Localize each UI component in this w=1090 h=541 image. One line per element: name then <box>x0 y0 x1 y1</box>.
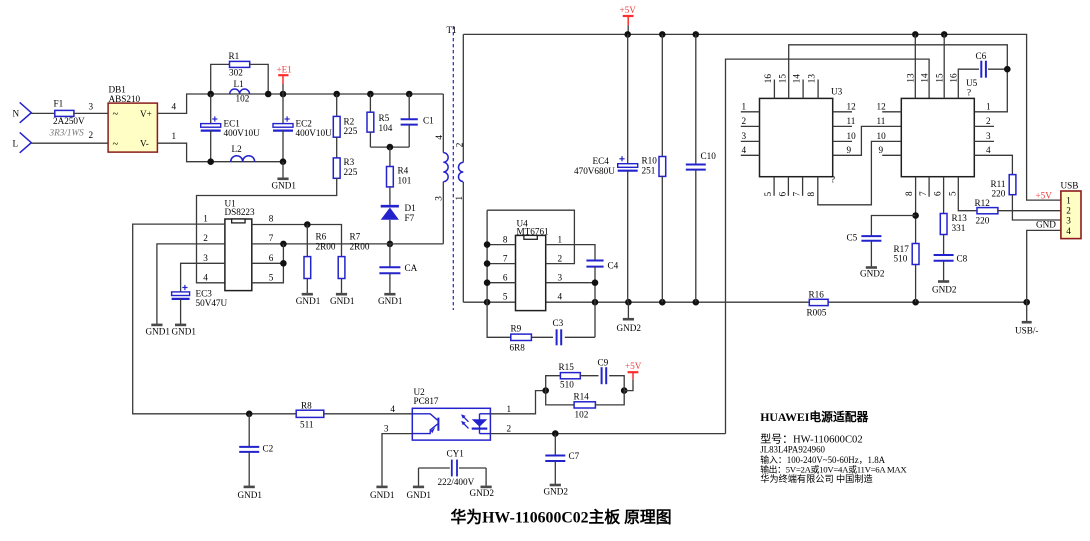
resistor R11 <box>1009 175 1016 195</box>
wire U3 pin 6 stub <box>787 177 789 196</box>
svg-text:104: 104 <box>379 123 393 133</box>
wire U2 pin 3 to ground <box>382 434 412 487</box>
wire U3 pin 8 to U5 pin 10 <box>818 141 902 204</box>
junction return rail GND2 <box>625 299 632 306</box>
svg-text:7: 7 <box>269 233 274 243</box>
svg-text:3: 3 <box>203 253 208 263</box>
junction return rail R10 <box>659 299 666 306</box>
svg-text:~: ~ <box>113 109 119 120</box>
svg-text:C8: C8 <box>957 254 968 264</box>
svg-text:1: 1 <box>986 102 991 112</box>
svg-text:USB: USB <box>1061 181 1079 191</box>
svg-text:4: 4 <box>390 404 395 414</box>
svg-text:251: 251 <box>642 166 656 176</box>
svg-text:~: ~ <box>113 139 119 150</box>
ground GND1 below CA <box>384 293 395 296</box>
svg-text:EC2: EC2 <box>296 119 313 129</box>
svg-text:输出：5V=2A或10V=4A或11V=6A MAX: 输出：5V=2A或10V=4A或11V=6A MAX <box>760 464 907 475</box>
svg-text:9: 9 <box>879 145 884 155</box>
wire R3 to U1 pin 4 <box>197 178 337 282</box>
svg-text:L: L <box>13 139 19 149</box>
svg-text:V+: V+ <box>140 109 152 119</box>
junction C7 tap <box>552 430 559 437</box>
diode D1 <box>381 205 399 208</box>
svg-text:12: 12 <box>877 102 887 112</box>
svg-text:ABS210: ABS210 <box>109 94 141 104</box>
svg-text:R15: R15 <box>559 362 575 372</box>
junction R6 top <box>304 221 311 228</box>
svg-text:1: 1 <box>558 234 563 244</box>
ground GND2 below C7 <box>550 484 561 487</box>
resistor R1 <box>211 64 230 94</box>
svg-text:R2: R2 <box>344 116 355 126</box>
svg-text:2: 2 <box>558 253 563 263</box>
resistor R9 <box>511 334 532 340</box>
svg-text:2: 2 <box>986 116 991 126</box>
svg-text:R10: R10 <box>642 156 658 166</box>
wire U2 pin 1 to divider <box>490 391 545 414</box>
svg-text:8: 8 <box>806 192 816 197</box>
wire USB pin 4 GND <box>1027 230 1061 302</box>
ground GND2 below C8 <box>938 280 949 283</box>
junction U1 pins 5-6-7 tie <box>280 241 287 248</box>
svg-text:2: 2 <box>454 142 464 147</box>
ground GND1 below CY1 <box>413 486 424 489</box>
svg-text:2R00: 2R00 <box>350 241 370 251</box>
svg-text:14: 14 <box>792 74 802 84</box>
IC U4 MT6761 <box>516 235 546 310</box>
svg-text:GND1: GND1 <box>378 296 403 306</box>
wire U5 pin 16 to C6 <box>958 69 979 98</box>
wire F1 to DB1 pin 3 <box>74 112 108 114</box>
capacitor C3 <box>556 329 558 345</box>
junction pin 6 tie <box>280 260 287 267</box>
wire U4 pin 3 <box>546 282 595 284</box>
svg-text:1: 1 <box>454 196 464 201</box>
svg-text:R13: R13 <box>952 213 968 223</box>
svg-text:华为终端有限公司 中国制造: 华为终端有限公司 中国制造 <box>760 473 873 484</box>
svg-text:GND1: GND1 <box>407 490 432 500</box>
svg-text:50V47U: 50V47U <box>196 298 228 308</box>
wire U1 pin 1 feedback to R8 <box>133 224 297 414</box>
wire U3 pin 13 stub <box>817 80 819 99</box>
capacitor C10 <box>695 34 697 164</box>
U2 LED arrows <box>462 415 468 421</box>
svg-text:511: 511 <box>300 420 314 430</box>
junction top rail EC4 <box>624 31 631 38</box>
junction return rail U4 pin 5 <box>484 299 491 306</box>
wire U5 pin 4 to R11 <box>974 155 1012 174</box>
svg-text:GND2: GND2 <box>544 487 569 497</box>
svg-text:2: 2 <box>89 130 94 140</box>
svg-text:R6: R6 <box>316 232 327 242</box>
svg-text:1: 1 <box>1066 195 1071 205</box>
transformer T1 primary winding <box>442 94 444 153</box>
capacitor C4 <box>586 260 603 262</box>
svg-text:102: 102 <box>236 93 250 103</box>
terminal USB- <box>1026 302 1028 322</box>
shunt resistor R16 <box>809 299 828 305</box>
svg-text:C7: C7 <box>569 451 580 461</box>
resistor R3 <box>336 137 338 158</box>
svg-text:DS8223: DS8223 <box>225 207 256 217</box>
junction U4 pin 8 <box>484 241 491 248</box>
ground GND1 below C2 <box>244 486 255 489</box>
svg-text:7: 7 <box>503 253 508 263</box>
junction L2 row EC1 <box>207 158 214 165</box>
svg-text:7: 7 <box>918 191 928 196</box>
svg-text:R11: R11 <box>991 179 1006 189</box>
svg-text:220: 220 <box>992 189 1006 199</box>
wire DB1 V- to lower rail <box>157 143 283 162</box>
svg-text:2: 2 <box>507 424 512 434</box>
resistor R6 <box>306 225 308 257</box>
capacitor C9 <box>601 367 603 384</box>
wire R12 to USB pin 2 <box>998 210 1061 212</box>
svg-text:+E1: +E1 <box>277 64 293 74</box>
optocoupler U2 PC817 <box>412 408 490 440</box>
svg-text:+5V: +5V <box>1036 191 1053 201</box>
svg-text:F7: F7 <box>405 213 415 223</box>
svg-text:V-: V- <box>140 139 149 149</box>
svg-text:102: 102 <box>575 410 589 420</box>
junction top rail U5 pin 15 <box>941 31 948 38</box>
svg-text:PC817: PC817 <box>414 396 439 406</box>
svg-text:EC1: EC1 <box>224 119 241 129</box>
svg-text:10: 10 <box>877 131 887 141</box>
svg-text:5: 5 <box>763 192 773 197</box>
capacitor C6 <box>980 61 982 78</box>
wire U1 pin 2 to ground <box>157 244 225 325</box>
resistor R17 <box>912 244 919 265</box>
svg-text:2R00: 2R00 <box>316 241 336 251</box>
svg-text:T1: T1 <box>447 25 458 35</box>
svg-text:F1: F1 <box>54 98 64 108</box>
svg-text:GND1: GND1 <box>272 180 297 190</box>
wire L to DB1 pin 2 <box>31 142 108 144</box>
wire U5 pin 15 to +5V rail <box>943 34 945 98</box>
resistor R2 <box>336 94 338 116</box>
svg-text:510: 510 <box>894 254 908 264</box>
svg-text:R16: R16 <box>809 290 825 300</box>
junction C4 pin 3 <box>592 279 599 286</box>
svg-text:MT6761: MT6761 <box>517 226 550 236</box>
svg-text:6R8: 6R8 <box>510 342 526 352</box>
svg-text:R5: R5 <box>379 113 390 123</box>
svg-text:CA: CA <box>405 263 418 273</box>
wire U5 pin 8 column <box>915 177 917 303</box>
junction top rail R10 <box>659 31 666 38</box>
junction return rail R17 <box>912 299 919 306</box>
resistor R12 <box>977 208 998 214</box>
Y-capacitor CY1 <box>419 467 450 469</box>
junction rail R2 top <box>333 91 340 98</box>
svg-text:8: 8 <box>904 191 914 196</box>
svg-text:?: ? <box>831 174 835 184</box>
svg-text:13: 13 <box>905 73 915 83</box>
wire R11 to USB pin 3 <box>1012 195 1061 220</box>
svg-text:14: 14 <box>919 73 929 83</box>
wire N to fuse F1 <box>31 112 55 114</box>
capacitor EC2 <box>282 94 284 124</box>
svg-text:EC4: EC4 <box>593 156 610 166</box>
svg-text:225: 225 <box>344 126 358 136</box>
wire U5 pin 7 stub <box>928 177 930 197</box>
svg-text:GND2: GND2 <box>860 269 885 279</box>
ground GND2 on return rail <box>627 302 629 319</box>
svg-text:6: 6 <box>933 191 943 196</box>
capacitor C8 <box>934 254 954 256</box>
junction divider left <box>542 387 549 394</box>
svg-text:R7: R7 <box>350 232 361 242</box>
junction return rail C10 <box>693 299 700 306</box>
wire U3 pin 12 stub <box>833 111 852 113</box>
svg-text:EC3: EC3 <box>196 288 213 298</box>
ground GND1 below R6 <box>302 293 313 296</box>
svg-text:L2: L2 <box>232 144 243 154</box>
resistor R10 <box>661 34 663 156</box>
svg-text:4: 4 <box>1066 226 1071 236</box>
junction C6 right <box>1004 66 1011 73</box>
svg-text:11: 11 <box>847 116 856 126</box>
junction U4 pin 7 <box>484 260 491 267</box>
ground GND1 below EC3 <box>175 324 186 327</box>
svg-text:400V10U: 400V10U <box>296 128 333 138</box>
inductor L1 <box>230 89 250 94</box>
wire secondary return rail <box>463 301 809 303</box>
junction D1 / primary return row <box>387 241 394 248</box>
svg-text:5: 5 <box>503 292 508 302</box>
svg-text:7: 7 <box>792 192 802 197</box>
svg-text:4: 4 <box>203 273 208 283</box>
svg-text:GND: GND <box>1036 220 1056 230</box>
svg-text:GND2: GND2 <box>470 488 495 498</box>
svg-text:R14: R14 <box>574 392 590 402</box>
wire U3 pin 15 riser <box>789 45 1008 112</box>
svg-text:D1: D1 <box>405 203 417 213</box>
svg-text:R9: R9 <box>511 323 522 333</box>
svg-text:4: 4 <box>172 101 177 111</box>
svg-text:3R3/1WS: 3R3/1WS <box>49 127 85 137</box>
wire U2 pin 2 row <box>490 433 725 435</box>
resistor R8 <box>296 410 324 417</box>
svg-text:华为HW-110600C02主板 原理图: 华为HW-110600C02主板 原理图 <box>450 507 671 526</box>
wire U3 pin 14 stub <box>802 80 804 99</box>
capacitor CA <box>389 244 391 267</box>
svg-text:2: 2 <box>742 116 747 126</box>
ground GND1 below R7 <box>336 293 347 296</box>
wire U3 pin 3 stub <box>741 140 760 142</box>
svg-text:R3: R3 <box>344 157 355 167</box>
wire DB1 V+ to main DC rail <box>157 94 443 113</box>
wire R5 C1 join <box>370 146 409 148</box>
wire U5 pin 3 stub <box>974 140 994 142</box>
wire U5 pin 5 to R12 <box>958 177 977 211</box>
junction rail EC1 <box>207 91 214 98</box>
transformer T1 secondary winding <box>462 34 464 162</box>
svg-text:12: 12 <box>847 102 857 112</box>
junction rail R5 top <box>367 91 374 98</box>
svg-text:11: 11 <box>877 116 886 126</box>
svg-text:9: 9 <box>847 145 852 155</box>
svg-text:15: 15 <box>934 73 944 83</box>
junction C5 tap <box>912 212 919 219</box>
svg-text:222/400V: 222/400V <box>438 477 475 487</box>
wire U5 pin 6 column <box>943 177 945 214</box>
IC U5 <box>901 98 974 176</box>
IC U1 DS8223 <box>225 219 252 291</box>
svg-text:15: 15 <box>777 74 787 84</box>
junction R4 top <box>387 144 394 151</box>
wire U3 pin 2 stub <box>741 125 760 127</box>
wire U1 pin 8 row <box>252 225 342 257</box>
svg-text:3: 3 <box>89 101 94 111</box>
svg-text:C3: C3 <box>553 318 564 328</box>
wire U5 pin 2 stub <box>974 125 994 127</box>
junction L2 row EC2 <box>280 158 287 165</box>
wire U5 pin 12 stub <box>882 111 901 113</box>
svg-text:+5V: +5V <box>625 361 642 371</box>
junction U4 pin 6 <box>484 279 491 286</box>
svg-text:L1: L1 <box>234 79 245 89</box>
svg-text:4: 4 <box>986 145 991 155</box>
junction top rail C10 <box>693 31 700 38</box>
svg-text:302: 302 <box>229 67 243 77</box>
svg-text:1: 1 <box>203 213 208 223</box>
wire U4 pin 1 to C4 <box>546 245 595 261</box>
svg-text:101: 101 <box>398 175 412 185</box>
capacitor C1 <box>408 94 410 119</box>
wire feedback riser to U3 area <box>726 59 930 434</box>
svg-text:3: 3 <box>986 131 991 141</box>
svg-text:2: 2 <box>1066 206 1071 216</box>
resistor R4 <box>389 147 391 166</box>
svg-text:1: 1 <box>507 404 512 414</box>
svg-text:GND2: GND2 <box>617 323 642 333</box>
junction rail C1 top <box>406 91 413 98</box>
U2 LED <box>479 414 481 434</box>
wire U1 pin 3 to EC3 <box>181 263 225 292</box>
svg-text:C5: C5 <box>847 233 858 243</box>
svg-text:13: 13 <box>807 74 817 84</box>
svg-text:R17: R17 <box>894 244 910 254</box>
ground GND1 below EC2 <box>282 162 284 179</box>
svg-text:225: 225 <box>344 167 358 177</box>
svg-text:5: 5 <box>947 191 957 196</box>
svg-text:6: 6 <box>269 253 274 263</box>
junction return rail USB- <box>1023 299 1030 306</box>
wire +5V top rail <box>463 34 1061 200</box>
svg-text:GND1: GND1 <box>330 296 355 306</box>
svg-text:8: 8 <box>269 213 274 223</box>
svg-text:R005: R005 <box>807 307 827 317</box>
svg-text:3: 3 <box>1066 216 1071 226</box>
svg-text:输入：100-240V~50-60Hz，1.8A: 输入：100-240V~50-60Hz，1.8A <box>760 454 885 465</box>
svg-text:C4: C4 <box>608 261 619 271</box>
snubber loop R9 C3 <box>531 336 553 338</box>
svg-text:R8: R8 <box>301 400 312 410</box>
svg-text:+5V: +5V <box>620 5 637 15</box>
svg-text:470V680U: 470V680U <box>574 166 615 176</box>
capacitor EC1 <box>210 94 212 124</box>
svg-text:C2: C2 <box>263 443 274 453</box>
wire U3 pin 1 stub <box>741 111 760 113</box>
svg-text:3: 3 <box>434 196 444 201</box>
wire pins 5-6-7 tie <box>252 244 284 283</box>
svg-text:510: 510 <box>560 379 574 389</box>
junction return rail C4 column <box>592 299 599 306</box>
svg-text:2A250V: 2A250V <box>53 116 85 126</box>
svg-text:1: 1 <box>742 102 747 112</box>
wire U5 pin 13 to +5V rail <box>914 34 916 98</box>
svg-text:?: ? <box>967 88 971 98</box>
svg-text:GND1: GND1 <box>172 326 197 336</box>
svg-text:GND1: GND1 <box>370 490 395 500</box>
svg-text:DB1: DB1 <box>109 84 127 94</box>
wire U3 pin 4 stub <box>741 154 760 156</box>
svg-text:R1: R1 <box>229 51 240 61</box>
capacitor EC3 <box>172 292 190 296</box>
resistor R15 <box>546 376 561 391</box>
resistor R7 <box>338 257 345 279</box>
svg-text:CY1: CY1 <box>447 449 465 459</box>
wire U3 pin 16 stub <box>773 80 775 99</box>
U2 phototransistor <box>412 414 437 420</box>
capacitor C5 <box>861 235 881 237</box>
svg-text:U3: U3 <box>831 86 843 96</box>
resistor R5 <box>369 94 371 112</box>
svg-text:4: 4 <box>742 145 747 155</box>
ground GND2 below CY1 <box>481 486 492 489</box>
svg-text:3: 3 <box>742 131 747 141</box>
svg-text:R12: R12 <box>975 198 991 208</box>
svg-text:C9: C9 <box>598 358 609 368</box>
capacitor EC4 <box>627 34 629 163</box>
svg-text:4: 4 <box>558 292 563 302</box>
svg-text:16: 16 <box>763 74 773 84</box>
wire U3 pin 9 to U5 pin 11 <box>833 126 902 155</box>
svg-text:4: 4 <box>434 135 444 140</box>
resistor R13 <box>940 214 947 235</box>
svg-text:2: 2 <box>203 233 208 243</box>
svg-text:331: 331 <box>952 223 966 233</box>
capacitor C7 <box>554 434 556 456</box>
wire U3 pin 10 stub <box>833 140 852 142</box>
svg-text:8: 8 <box>503 234 508 244</box>
svg-text:R4: R4 <box>398 166 409 176</box>
junction divider right <box>621 387 628 394</box>
wire U3 pin 5 stub <box>773 177 775 196</box>
svg-text:16: 16 <box>949 73 959 83</box>
svg-text:C10: C10 <box>701 151 717 161</box>
wire C5 branch <box>871 216 915 237</box>
wire U3 pin 7 stub <box>802 177 804 196</box>
svg-text:400V10U: 400V10U <box>224 128 261 138</box>
bridge rectifier DB1 <box>108 103 157 152</box>
svg-text:GND1: GND1 <box>146 326 171 336</box>
svg-text:型号：: 型号： <box>760 432 793 446</box>
transformer T1 core (dashed) <box>452 26 454 310</box>
svg-text:220: 220 <box>976 216 990 226</box>
inductor L2 <box>231 156 255 162</box>
IC U3 <box>760 98 833 176</box>
svg-text:5: 5 <box>269 273 274 283</box>
svg-text:C1: C1 <box>423 115 434 125</box>
junction rail R1 right <box>265 91 272 98</box>
svg-text:C6: C6 <box>976 51 987 61</box>
svg-text:6: 6 <box>777 192 787 197</box>
capacitor C2 <box>248 414 250 447</box>
